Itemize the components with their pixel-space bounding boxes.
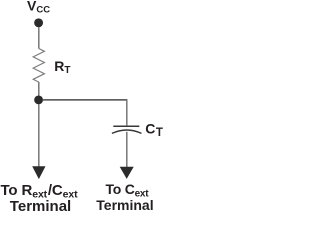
VCC terminal dot <box>34 18 43 27</box>
wire junction down to left terminal arrow <box>38 104 40 168</box>
capacitor CT top plate <box>113 125 139 127</box>
svg-text:VCC: VCC <box>27 0 50 15</box>
svg-text:Terminal: Terminal <box>10 198 71 213</box>
wire junction to capacitor branch (horizontal) <box>42 99 127 101</box>
wire capacitor to right terminal arrow <box>126 132 128 168</box>
wire VCC dot to resistor <box>38 27 40 49</box>
svg-text:Terminal: Terminal <box>96 197 153 213</box>
svg-text:RT: RT <box>54 58 70 76</box>
right terminal arrowhead <box>120 167 134 179</box>
capacitor CT bottom plate (curved) <box>112 130 142 133</box>
left terminal arrowhead <box>32 166 45 179</box>
wire resistor to junction <box>38 82 40 97</box>
junction node dot <box>34 95 43 104</box>
svg-text:CT: CT <box>145 120 163 139</box>
resistor R_T <box>33 49 44 83</box>
wire capacitor branch vertical <box>126 100 128 126</box>
